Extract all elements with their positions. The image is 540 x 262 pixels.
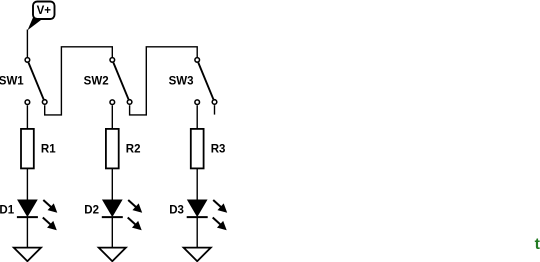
label R2 [126, 143, 141, 155]
LED D1 light arrow 2 [43, 218, 57, 231]
switch SW2 lever [113, 63, 128, 100]
LED D3 light arrow 2 [213, 218, 227, 231]
LED D1 light arrow 1 [43, 200, 57, 213]
wire D3 to ground [196, 217, 198, 248]
svg-text:SW1: SW1 [0, 76, 24, 88]
switch SW2 throw terminal right [127, 100, 132, 105]
switch SW1 lever [29, 63, 44, 100]
label R3 [211, 143, 226, 155]
net flag V+ label [37, 5, 52, 17]
label SW1 [0, 76, 24, 88]
wire V+ to SW1 common [26, 30, 28, 58]
wire D2 to ground [111, 217, 113, 248]
switch SW3 common terminal [195, 58, 200, 63]
svg-text:D3: D3 [169, 205, 184, 217]
label SW2 [84, 76, 109, 88]
LED D1 triangle [18, 200, 37, 216]
label D2 [84, 205, 99, 217]
switch SW3 throw terminal right [212, 100, 217, 105]
switch SW1 throw terminal left [25, 100, 30, 105]
ground symbol column 1 [14, 248, 41, 262]
wire R1 to D1 [26, 168, 28, 200]
switch SW1 throw terminal right [42, 100, 47, 105]
svg-text:R3: R3 [211, 143, 226, 155]
resistor R3 [191, 129, 204, 169]
LED D2 light arrow 1 [128, 200, 142, 213]
wire SW2 left throw to R2 [111, 105, 113, 129]
label R1 [41, 143, 56, 155]
label SW3 [169, 76, 194, 88]
wire R2 to D2 [111, 168, 113, 200]
LED D1 cathode bar [17, 216, 38, 218]
watermark letter t [535, 236, 540, 253]
label D3 [169, 205, 184, 217]
net flag V+ pointer wedge [28, 17, 43, 30]
svg-text:V+: V+ [37, 5, 52, 17]
wire SW3 left throw to R3 [196, 105, 198, 129]
ground symbol column 3 [184, 248, 211, 262]
wire R3 to D3 [196, 168, 198, 200]
LED D2 light arrow 2 [128, 218, 142, 231]
ground symbol column 2 [99, 248, 126, 262]
net flag V+ box [33, 2, 55, 20]
wire stub below SW3 right throw [214, 105, 216, 114]
svg-text:D1: D1 [0, 205, 15, 217]
svg-text:SW2: SW2 [84, 76, 109, 88]
resistor R1 [21, 129, 34, 169]
resistor R2 [106, 129, 119, 169]
switch SW3 throw terminal left [195, 100, 200, 105]
LED D3 light arrow 1 [213, 200, 227, 213]
svg-text:D2: D2 [84, 205, 99, 217]
switch SW1 common terminal [25, 58, 30, 63]
LED D3 triangle [188, 200, 207, 216]
label D1 [0, 205, 15, 217]
svg-text:t: t [535, 236, 540, 253]
LED D2 triangle [103, 200, 122, 216]
svg-text:R1: R1 [41, 143, 56, 155]
switch SW2 common terminal [110, 58, 115, 63]
LED D3 cathode bar [187, 216, 208, 218]
LED D2 cathode bar [102, 216, 123, 218]
svg-text:R2: R2 [126, 143, 141, 155]
wire D1 to ground [26, 217, 28, 248]
switch SW3 lever [198, 63, 213, 100]
wire SW1 left throw to R1 [26, 105, 28, 129]
svg-text:SW3: SW3 [169, 76, 194, 88]
switch SW2 throw terminal left [110, 100, 115, 105]
wire SW2 right throw to SW3 common [130, 47, 198, 115]
wire SW1 right throw to SW2 common [45, 47, 113, 115]
